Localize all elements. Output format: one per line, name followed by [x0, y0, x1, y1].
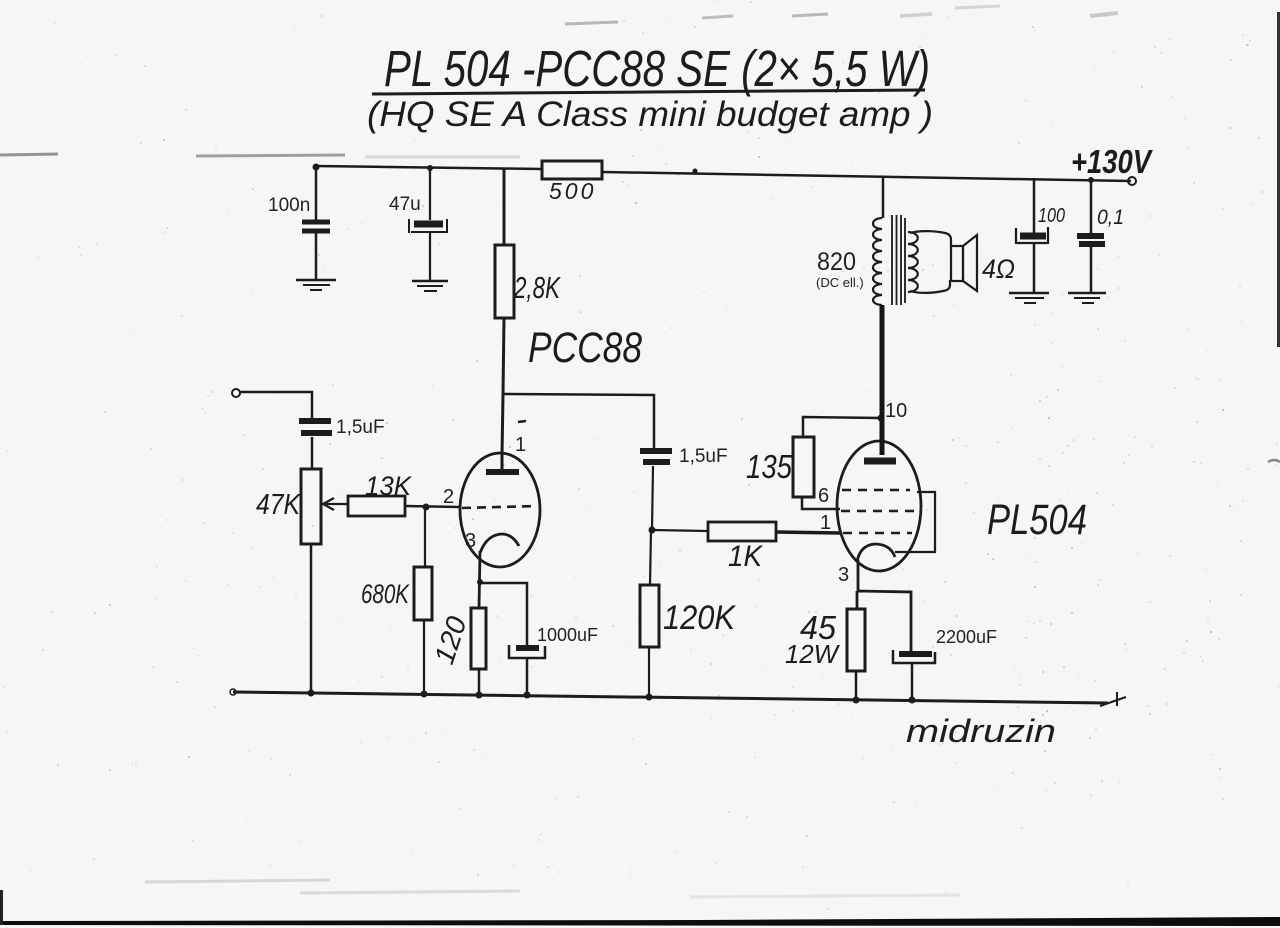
node: rail left end [313, 164, 320, 171]
scan artifact left bottom corner [0, 890, 3, 925]
svg-text:1K: 1K [728, 540, 764, 573]
pin label 3 (PCC88 cathode) [465, 530, 476, 552]
svg-text:100n: 100n [268, 195, 310, 216]
title text [384, 40, 930, 97]
wire: 13K to grid node [405, 506, 460, 507]
wire: PCC88 cathode down [479, 551, 480, 608]
tube PCC88 cathode arc [480, 534, 519, 553]
scan smudge right edge curl [1268, 460, 1280, 462]
stray ink dot on rail [693, 169, 698, 174]
svg-text:47K: 47K [256, 489, 301, 521]
transformer 820 secondary winding [908, 232, 918, 292]
svg-text:1: 1 [820, 512, 831, 534]
wire: node to 680K [424, 507, 426, 567]
resistor 135 [793, 437, 814, 497]
wire: g3 to cathode bracket [895, 492, 935, 552]
wire: node to 1K [652, 530, 708, 531]
svg-text:1000uF: 1000uF [537, 625, 598, 645]
label 2200uF [936, 627, 997, 647]
svg-text:4Ω: 4Ω [982, 254, 1015, 284]
svg-text:midruzin: midruzin [906, 713, 1056, 749]
label 100 [1038, 205, 1065, 227]
wire: rail to transformer primary [882, 176, 885, 218]
label 820 [817, 248, 856, 276]
pin label 3 (PL504 cathode) [838, 564, 849, 586]
capacitor 2200uF plate [893, 650, 935, 663]
node: coupling junction [649, 527, 656, 534]
node: rail at 1000uF [524, 692, 531, 699]
svg-text:0,1: 0,1 [1097, 206, 1124, 229]
tube PL504 cathode arc [857, 544, 895, 562]
resistor 500 [542, 161, 602, 179]
label DC ell [816, 275, 864, 290]
wire: cathode node to 1000uF [480, 583, 527, 645]
svg-text:680K: 680K [361, 579, 410, 609]
svg-text:10: 10 [885, 400, 907, 422]
ground for 0.1 [1068, 293, 1106, 303]
capacitor 0.1 lead [1090, 180, 1093, 292]
svg-text:3: 3 [838, 564, 849, 586]
resistor 120 [471, 608, 486, 669]
resistor 2.8K [495, 245, 514, 318]
tube PL504 envelope [837, 441, 921, 571]
pin label 1 (PCC88 anode) [515, 434, 526, 456]
svg-text:2: 2 [443, 486, 454, 508]
wire: input to 1.5uF [240, 392, 312, 418]
wire: 1000uF to ground rail [526, 658, 529, 692]
node: rail at 120K [646, 694, 653, 701]
tube PL504 grid g3 dashed [842, 489, 910, 492]
stray pen mark [518, 421, 526, 422]
node: rail at 680K [421, 691, 428, 698]
wire: rail right end tick [1100, 692, 1126, 706]
label 12W [785, 639, 840, 669]
wire: 680K to ground rail [423, 620, 425, 691]
capacitor 0.1 plates [1077, 236, 1105, 244]
node: rail left end dot [230, 689, 236, 695]
speaker driver box [951, 246, 963, 281]
tube PCC88 anode plate [486, 455, 519, 472]
wire: cathode to 45 and 2200uF [857, 591, 911, 651]
wire: 2200uF to ground rail [911, 663, 914, 698]
svg-text:(DC ell.): (DC ell.) [816, 275, 864, 290]
pin label 10 [885, 400, 907, 422]
label 0,1 [1097, 206, 1124, 229]
svg-text:2,8K: 2,8K [513, 270, 561, 305]
label +130V [1071, 143, 1153, 180]
terminal: +130V output circle [1128, 177, 1136, 185]
ground for 100n [296, 280, 336, 290]
capacitor 100n plates [302, 222, 330, 231]
node: pin10 junction [878, 415, 885, 422]
node: rail at 45 [853, 697, 860, 704]
tube PCC88 grid dashed [462, 506, 537, 508]
tube PL504 grid g1 dashed [843, 532, 912, 535]
pin label 1 (PL504 grid) [820, 512, 831, 534]
wire: secondary to speaker [910, 231, 951, 293]
scan smudge top edge marks [565, 6, 1118, 24]
label 500 [549, 178, 596, 204]
scan artifact right edge line [1277, 12, 1280, 347]
label 1,5uF input [336, 417, 385, 438]
ground for 100 [1009, 293, 1049, 303]
terminal: input jack [232, 389, 240, 397]
label PCC88 [528, 324, 642, 372]
capacitor 47u electrolytic plates [409, 219, 447, 233]
label 2,8K [513, 270, 561, 305]
wire: 1.5uF to 47K pot [311, 437, 314, 469]
svg-text:(HQ SE A Class mini budget amp: (HQ SE A Class mini budget amp ) [367, 95, 933, 134]
scan artifact bottom edge bar [0, 917, 1280, 926]
wire: PCC88 anode to coupling cap [502, 394, 654, 448]
tube PL504 grid g2 dashed [841, 510, 916, 513]
label 1,5uF coupling [679, 446, 728, 467]
tube PCC88 envelope [460, 453, 540, 567]
label 1000uF [537, 625, 598, 645]
label 100n [268, 195, 310, 216]
wire: 135 bottom to pin 6 [802, 497, 840, 509]
label 120K [663, 599, 736, 637]
svg-text:100: 100 [1038, 205, 1065, 227]
wire: rail to 2.8K [503, 168, 506, 245]
node: cathode junction [477, 579, 483, 585]
svg-text:47u: 47u [389, 194, 421, 215]
label PL504 [987, 496, 1087, 544]
capacitor 100 electrolytic plates [1016, 227, 1048, 243]
resistor 680K [414, 567, 432, 620]
wire: ground rail bottom [233, 692, 1108, 703]
svg-text:120K: 120K [663, 599, 736, 637]
node: rail at +130V [1088, 177, 1094, 183]
capacitor 1000uF plate [509, 645, 545, 658]
wire: B+ top rail [316, 166, 1131, 181]
node: rail at 2200uF [909, 697, 916, 704]
potentiometer 47K wiper arrow [323, 498, 348, 510]
label 45 [800, 609, 837, 646]
wire: 135 top to anode line [803, 417, 881, 437]
svg-text:6: 6 [818, 485, 829, 507]
tube PL504 anode plate [864, 458, 896, 465]
pin label 2 (PCC88 grid) [443, 486, 454, 508]
label 47u [389, 194, 421, 215]
label 135 [746, 448, 793, 485]
transformer 820 primary winding [873, 218, 882, 305]
node: rail at 47u [427, 165, 433, 171]
wire: node down to 120K [650, 530, 651, 585]
scan smudge bottom left area [145, 880, 960, 897]
node: rail at 120 [476, 692, 483, 699]
speaker cone [963, 235, 977, 291]
wire: 2.8K to PCC88 anode [502, 318, 504, 455]
wire: coupling cap to node [652, 466, 653, 530]
label 47K [256, 489, 301, 521]
label 4 ohm [982, 254, 1015, 284]
scan smudge top left edge [0, 154, 520, 157]
svg-text:13K: 13K [365, 471, 412, 501]
svg-text:500: 500 [549, 178, 596, 204]
wire: transformer to PL504 anode thick [880, 305, 885, 455]
subtitle text [367, 95, 933, 134]
resistor 120K [640, 585, 659, 647]
capacitor 100 lead [1033, 178, 1036, 292]
transformer 820 core [892, 215, 905, 305]
node: rail at 47K [308, 690, 315, 697]
label 1K [728, 540, 764, 573]
wire: 120 to ground rail [478, 669, 481, 692]
svg-text:PL 504 -PCC88 SE (2× 5,5 W): PL 504 -PCC88 SE (2× 5,5 W) [384, 40, 930, 97]
ground for 47u [412, 281, 448, 291]
wire: 45 to ground rail [855, 671, 858, 698]
svg-text:+130V: +130V [1071, 143, 1153, 180]
capacitor 1.5uF coupling plates [640, 451, 672, 462]
svg-text:2200uF: 2200uF [936, 627, 997, 647]
wire: PL504 cathode down [857, 560, 860, 591]
resistor 13K [348, 496, 405, 516]
label 680K [361, 579, 410, 609]
resistor 1K [708, 522, 776, 541]
svg-text:PCC88: PCC88 [528, 324, 642, 372]
wire: 47K to ground rail [310, 544, 313, 691]
svg-text:1: 1 [515, 434, 526, 456]
svg-text:PL504: PL504 [987, 496, 1087, 544]
title underline [372, 90, 925, 94]
wire: 1K to PL504 grid [776, 532, 840, 533]
wire: 120K to ground rail [648, 647, 650, 694]
svg-text:135: 135 [746, 448, 793, 485]
svg-text:3: 3 [465, 530, 476, 552]
capacitor 47u lead [429, 168, 431, 280]
capacitor 1.5uF input plates [299, 421, 332, 433]
svg-text:1,5uF: 1,5uF [679, 446, 728, 467]
svg-text:1,5uF: 1,5uF [336, 417, 385, 438]
label signature midruzin [906, 713, 1056, 749]
node: grid junction [423, 504, 430, 511]
pin label 6 (PL504 screen) [818, 485, 829, 507]
svg-text:12W: 12W [785, 639, 840, 669]
potentiometer 47K body [301, 469, 321, 544]
capacitor 100n lead [315, 167, 318, 279]
svg-text:820: 820 [817, 248, 856, 276]
label 120 rotated [428, 612, 472, 668]
label 13K [365, 471, 412, 501]
resistor 45 12W [847, 609, 865, 671]
